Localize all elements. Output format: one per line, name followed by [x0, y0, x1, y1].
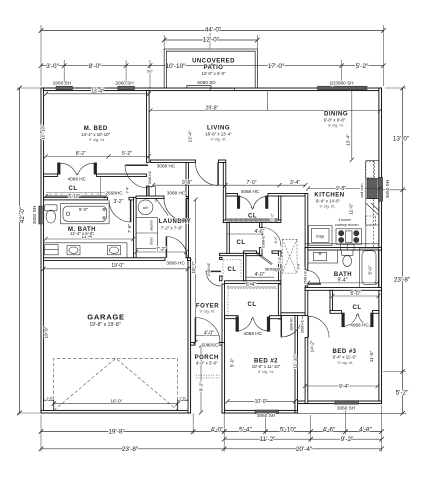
svg-text:9' clg. ht.: 9' clg. ht.: [211, 137, 227, 142]
svg-text:42'-0": 42'-0": [19, 207, 26, 223]
svg-text:19'-8": 19'-8": [108, 429, 124, 436]
svg-text:3060 SH: 3060 SH: [337, 405, 355, 410]
svg-text:13'-4": 13'-4": [188, 130, 193, 142]
door bed3 entry 2868 arc: [308, 316, 329, 337]
svg-text:2'-8": 2'-8": [278, 256, 282, 264]
wall: hall/foyer closet north: [220, 253, 263, 255]
svg-text:4'-0": 4'-0": [211, 426, 224, 433]
m.bath linen box: [45, 245, 59, 255]
door living closet double arcs: [237, 196, 240, 209]
wall: hall north (living south-west): [151, 160, 196, 163]
svg-text:19'-0": 19'-0": [111, 263, 124, 269]
porch slab with concrete dots: [196, 375, 220, 378]
wall: bed2 right: [295, 316, 298, 411]
wall: m.bed right (upper): [147, 91, 150, 163]
svg-text:LAUNDRY: LAUNDRY: [159, 219, 192, 225]
svg-text:7'-10": 7'-10": [68, 194, 81, 200]
svg-text:CL: CL: [237, 240, 246, 246]
svg-text:10'-0": 10'-0": [255, 399, 268, 405]
wall: m.closet / m.bath separation: [44, 197, 108, 200]
window 2060 SH (m.bed right): [118, 86, 135, 90]
svg-text:7'-0": 7'-0": [247, 180, 257, 186]
svg-text:12'-0" x 5'-0": 12'-0" x 5'-0": [201, 71, 226, 76]
svg-text:w/h: w/h: [143, 206, 148, 210]
exterior wall: right: [379, 88, 382, 404]
svg-text:5½": 5½": [147, 70, 154, 74]
svg-text:5'-0": 5'-0": [229, 358, 234, 368]
svg-text:6'-0": 6'-0": [351, 291, 361, 297]
laundry washer dryer stack: [136, 218, 157, 249]
svg-text:10'-10": 10'-10": [41, 125, 46, 140]
door m.bath 2668 arc: [109, 200, 131, 222]
wall: m.bed south right of closet opening: [97, 174, 147, 177]
svg-text:3'-2": 3'-2": [113, 199, 123, 205]
m.bath tub: [61, 204, 110, 224]
wall: storage left: [244, 253, 246, 280]
svg-text:7'-2": 7'-2": [156, 247, 166, 253]
kitchen sink: [341, 244, 355, 249]
wall: bed3 closet left: [330, 290, 333, 313]
svg-text:3068 HC: 3068 HC: [167, 190, 186, 195]
wall: bed2 closet right column: [278, 284, 281, 319]
window 3050 SH (m.bath left wall): [39, 206, 42, 224]
door foyer closet 2068 arc: [206, 271, 221, 286]
door garage/laundry 3068 arc: [166, 237, 187, 258]
svg-text:GARAGE: GARAGE: [87, 313, 125, 322]
wall: storage north with angled opening: [244, 251, 257, 253]
wall: garage north / m.bath south: [44, 258, 166, 261]
patio sliding door 6080 SD: [187, 86, 235, 91]
rotated small dims and labels: [41, 125, 375, 392]
svg-text:CL: CL: [248, 213, 257, 219]
svg-text:9'-8": 9'-8": [336, 186, 346, 192]
door laundry 3068 arc: [164, 199, 187, 222]
svg-text:11'-0": 11'-0": [348, 203, 353, 215]
svg-text:9'-4" x 14'-0": 9'-4" x 14'-0": [316, 198, 341, 203]
door bed3 closet double arcs: [342, 313, 345, 327]
svg-text:4'-0": 4'-0": [204, 330, 214, 336]
svg-text:44'-0": 44'-0": [205, 26, 221, 33]
bath tub: [360, 248, 379, 288]
laundry water heater: [138, 200, 153, 215]
wall: m.bed right (lower stub): [147, 186, 150, 199]
wall: bath south / bed3 closet north: [305, 288, 381, 291]
svg-text:5'-4": 5'-4": [239, 426, 252, 433]
svg-text:(2)3060 SH: (2)3060 SH: [330, 81, 354, 86]
garage door jamb returns: [44, 400, 54, 410]
svg-text:1'-6": 1'-6": [179, 397, 187, 401]
svg-text:wall oven: wall oven: [360, 183, 364, 197]
kitchen island with cooktop: [336, 229, 362, 244]
svg-text:4068 HC: 4068 HC: [350, 322, 369, 327]
door bath 2668 arc: [307, 271, 320, 284]
svg-text:cooktop w/oven: cooktop w/oven: [335, 223, 359, 227]
m.closet shelf divider: [99, 177, 101, 198]
wall: living south with closet opening: [226, 194, 238, 197]
svg-text:washer: washer: [150, 219, 154, 231]
svg-text:5'-2": 5'-2": [396, 389, 409, 396]
svg-text:2668 HC: 2668 HC: [304, 270, 308, 284]
svg-text:2668 HC: 2668 HC: [148, 170, 152, 184]
door bed2 closet double arcs: [236, 317, 239, 332]
svg-text:2668HC: 2668HC: [105, 190, 123, 195]
svg-text:3050 SH: 3050 SH: [32, 206, 37, 224]
svg-text:9'-2": 9'-2": [341, 436, 354, 443]
svg-text:4'-6": 4'-6": [255, 229, 265, 235]
svg-text:6080 SD: 6080 SD: [197, 80, 216, 85]
svg-text:11'-4" x 6'-8": 11'-4" x 6'-8": [70, 231, 94, 236]
hall linen small: [148, 187, 156, 197]
interior dimension ticks: [42, 92, 383, 404]
kitchen counter along bath wall: [305, 243, 379, 245]
exterior wall: bed2 bottom: [222, 410, 298, 413]
svg-text:9' clg. ht.: 9' clg. ht.: [258, 369, 274, 374]
svg-text:fridge: fridge: [316, 234, 325, 238]
svg-text:9'-8": 9'-8": [182, 180, 192, 186]
svg-text:14'-2": 14'-2": [310, 340, 315, 352]
wall: bath north (kitchen south): [305, 248, 381, 251]
svg-text:9'-2": 9'-2": [199, 382, 204, 392]
svg-text:7'-9": 7'-9": [127, 224, 132, 234]
svg-text:5'-0": 5'-0": [79, 207, 89, 212]
svg-text:12'-0": 12'-0": [203, 37, 219, 44]
svg-text:CL: CL: [69, 186, 78, 192]
porch depth dim 9'-2": [196, 200, 201, 413]
svg-text:9' clg. ht.: 9' clg. ht.: [200, 309, 216, 314]
svg-text:3068 HC: 3068 HC: [157, 163, 176, 168]
svg-text:4'-0": 4'-0": [255, 272, 265, 278]
exterior wall: bed2/bed3 step: [295, 401, 298, 413]
wall: corridor south / bed2 closet north: [225, 281, 281, 284]
svg-text:9' clg. ht.: 9' clg. ht.: [89, 137, 105, 142]
patio slab outline: [164, 49, 257, 88]
svg-text:2068HC: 2068HC: [262, 235, 266, 248]
svg-text:8'-2": 8'-2": [76, 151, 86, 157]
svg-text:1'-6": 1'-6": [46, 397, 54, 401]
svg-text:BATH: BATH: [334, 272, 352, 278]
svg-text:17'-0": 17'-0": [268, 63, 284, 70]
svg-text:9' clg. ht.: 9' clg. ht.: [328, 123, 344, 128]
svg-text:3'-4": 3'-4": [290, 180, 300, 186]
wall: living closet right column: [278, 196, 281, 220]
exterior wall: bed2 left / porch right: [222, 343, 225, 414]
door bed2 entry 2868 arc: [281, 316, 303, 338]
kitchen fridge: [309, 226, 333, 246]
svg-text:19'-8": 19'-8": [43, 326, 48, 338]
garage door dashed opening: [54, 358, 178, 410]
wall: m.bed south left of closet opening: [44, 174, 58, 177]
exterior wall: top: [41, 88, 382, 91]
wall: hall closet right: [260, 223, 262, 228]
door storage angled: [257, 252, 273, 265]
bath toilet: [342, 250, 354, 255]
interior dimension lines: [44, 91, 381, 402]
svg-text:UNCOVERED: UNCOVERED: [192, 59, 235, 65]
svg-text:PATIO: PATIO: [204, 65, 224, 71]
bath vanity with sink: [308, 250, 338, 263]
svg-text:13'-0": 13'-0": [393, 135, 409, 142]
svg-text:3060 SH: 3060 SH: [257, 413, 275, 418]
svg-text:3068 HC: 3068 HC: [166, 260, 185, 265]
window 2060 SH (m.bed left): [56, 86, 73, 90]
svg-text:5'-0": 5'-0": [368, 265, 373, 275]
svg-text:9' clg. ht.: 9' clg. ht.: [338, 360, 354, 365]
svg-text:5'-10": 5'-10": [280, 426, 296, 433]
exterior wall: foyer front at porch (right jamb): [219, 343, 225, 346]
svg-text:4'-0" x 5'-0": 4'-0" x 5'-0": [196, 360, 218, 365]
svg-text:3'-0": 3'-0": [46, 63, 59, 70]
svg-text:13'-4": 13'-4": [91, 89, 104, 95]
wall: storage/hallway column: [278, 251, 281, 281]
m.bath toilet: [45, 205, 57, 211]
wall: bed2 closet south: [225, 316, 239, 319]
exterior wall: garage/foyer separation: [188, 258, 191, 413]
svg-text:CL: CL: [353, 305, 362, 311]
svg-text:4'-8": 4'-8": [359, 426, 372, 433]
window 3060 SH (bed3 bottom): [335, 401, 359, 405]
svg-text:9' clg. ht.: 9' clg. ht.: [320, 204, 336, 209]
exterior wall: left: [41, 88, 44, 413]
wall: foyer closet left: [220, 257, 223, 259]
svg-text:16'-0": 16'-0": [111, 398, 123, 403]
attic access dashed box with X: [282, 239, 297, 273]
svg-text:4 burner: 4 burner: [338, 218, 351, 222]
bed2 closet shelf dashed: [228, 286, 278, 315]
svg-text:9'-4": 9'-4": [338, 278, 348, 284]
wall: foyer right: [222, 284, 225, 343]
svg-text:8'-0": 8'-0": [89, 63, 102, 70]
svg-text:23'-8": 23'-8": [122, 446, 138, 453]
foyer closet shelf dashed: [223, 260, 241, 279]
svg-text:2868 HC: 2868 HC: [300, 319, 304, 333]
exterior wall: garage bottom: [41, 410, 191, 413]
kitchen right cabinet run: [366, 161, 379, 248]
svg-text:7'-2" x 7'-8": 7'-2" x 7'-8": [161, 225, 183, 230]
door m.bed closet bifold arcs: [58, 163, 61, 174]
wall: living closet left: [223, 163, 226, 223]
svg-text:4068 HC: 4068 HC: [241, 189, 260, 194]
svg-text:9'-4" x 11'-6": 9'-4" x 11'-6": [333, 355, 357, 360]
svg-text:29'-8": 29'-8": [206, 105, 219, 111]
living closet shelf dashed: [227, 218, 279, 221]
window 3050 SH (kitchen right wall): [378, 177, 382, 201]
svg-text:4'-6": 4'-6": [323, 426, 336, 433]
svg-text:10'-10": 10'-10": [166, 63, 186, 70]
window (2)3060 SH (dining): [318, 86, 368, 90]
svg-text:3050 SH: 3050 SH: [385, 180, 390, 198]
svg-text:4068 HC: 4068 HC: [68, 177, 87, 182]
svg-text:20'-4": 20'-4": [296, 446, 312, 453]
svg-text:9'-4": 9'-4": [339, 384, 349, 390]
svg-text:5080SC: 5080SC: [202, 342, 220, 347]
svg-text:CL: CL: [248, 302, 257, 308]
svg-text:2068 HC: 2068 HC: [207, 262, 211, 276]
wall: laundry north (hall south): [136, 196, 164, 199]
wall: bed3 closet south jambs: [330, 311, 342, 314]
wall: hall closet left: [227, 223, 229, 254]
svg-text:19'-8" x 19'-8": 19'-8" x 19'-8": [89, 322, 121, 328]
kitchen wall oven: [367, 179, 377, 198]
svg-text:4'-0": 4'-0": [274, 236, 278, 244]
svg-text:2060 SH: 2060 SH: [53, 81, 71, 86]
wall: laundry right: [186, 163, 189, 197]
window 3060 SH (bed2 bottom): [255, 410, 279, 414]
wall: kitchen west: [305, 194, 308, 267]
door foyer front 5080SC arc: [195, 318, 220, 343]
svg-text:dryer: dryer: [150, 236, 154, 245]
svg-text:storage: storage: [265, 266, 281, 271]
svg-text:2868 HC: 2868 HC: [289, 317, 293, 331]
door m.bed entry 2668 arc: [125, 165, 148, 188]
svg-text:18'-7": 18'-7": [191, 261, 196, 273]
wall: m.bath right / laundry left: [134, 197, 137, 260]
svg-text:5'-2": 5'-2": [122, 151, 132, 157]
svg-text:5'-2": 5'-2": [356, 63, 369, 70]
svg-text:13'-4": 13'-4": [345, 134, 350, 146]
svg-text:11'-2": 11'-2": [260, 436, 276, 443]
exterior wall: bed3 bottom: [295, 401, 382, 404]
door hall closet 2068 arc: [262, 228, 281, 247]
svg-text:11'-10": 11'-10": [293, 354, 298, 369]
m.bath vanity counter with two sinks: [44, 243, 128, 258]
door hall entry 3068 arc: [196, 163, 219, 186]
wall: bath west upper: [305, 248, 308, 271]
svg-text:7'-4": 7'-4": [126, 186, 130, 194]
svg-text:5'-8": 5'-8": [297, 262, 301, 270]
svg-text:6'-4": 6'-4": [246, 282, 256, 288]
wall: bed3 west: [305, 286, 308, 316]
svg-text:2'-0": 2'-0": [271, 213, 275, 221]
svg-text:11'-6": 11'-6": [369, 350, 374, 362]
wall: lobby south (bed2 north-east): [281, 313, 305, 316]
svg-text:CL: CL: [228, 267, 237, 273]
exterior wall: foyer front at porch (left jamb): [191, 343, 196, 346]
dimension lines: [20, 31, 403, 449]
svg-text:4068 HC: 4068 HC: [244, 331, 263, 336]
svg-text:23'-8": 23'-8": [394, 277, 410, 284]
svg-text:2060 SH: 2060 SH: [115, 81, 133, 86]
wall: living closet bottom: [223, 220, 281, 223]
